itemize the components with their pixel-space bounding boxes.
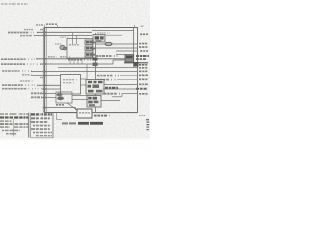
- long wire A label: [1, 58, 38, 60]
- header text top-left: [1, 3, 28, 5]
- wire F: [42, 88, 61, 90]
- vertical into block A: [86, 64, 88, 80]
- wire 2: [34, 34, 92, 36]
- video amp block: [61, 75, 81, 95]
- wire corner from table2: [56, 113, 58, 120]
- table 2 bottom-left: [31, 113, 62, 138]
- label row above mid wires: [96, 55, 118, 57]
- left connector bus (double line): [42, 28, 44, 113]
- paper grain: [0, 0, 150, 138]
- word gaps table 1: [4, 113, 26, 137]
- label wire row: [97, 75, 120, 77]
- mixer dark marks: [86, 41, 89, 43]
- wire: [72, 99, 88, 101]
- wire 1: antenna input label: [8, 32, 38, 34]
- wire top inner: [92, 30, 134, 32]
- wire D: [31, 75, 61, 77]
- wire into AFC: [46, 107, 75, 109]
- label row: [104, 93, 120, 95]
- connector pins on left bus: [43, 32, 47, 109]
- wire 2 label: [20, 35, 35, 37]
- chroma/video IC block A: [86, 80, 104, 95]
- wire F label: [2, 88, 44, 90]
- inner vertical divider: [95, 33, 97, 113]
- dark label: [105, 87, 118, 89]
- right dark block: [125, 55, 134, 62]
- right mid wires: [58, 67, 138, 69]
- wire through AFC: [60, 112, 77, 114]
- wire C label: [2, 70, 32, 72]
- label wire G left: [31, 92, 42, 94]
- corner scan marks: [139, 115, 145, 117]
- label wire H left: [31, 96, 42, 98]
- wire: [92, 47, 138, 49]
- small label left of tuner: [55, 43, 62, 45]
- transistor pair: [57, 93, 63, 97]
- IF amp box 2: [85, 46, 93, 51]
- faint label below wire2: [60, 36, 70, 38]
- wire: [105, 34, 122, 36]
- IF amp box 1: [85, 40, 93, 45]
- figure caption: [62, 122, 68, 124]
- top small label row: [24, 29, 34, 31]
- wire C: [31, 71, 96, 73]
- diagonal wire to AFC box: [67, 103, 77, 110]
- right margin labels: [136, 34, 149, 94]
- tick mid top border: [57, 25, 59, 28]
- tuner block box: [67, 39, 93, 59]
- label above top border: [36, 24, 44, 26]
- right dark box lower: [134, 62, 139, 67]
- label wire row: [97, 79, 117, 81]
- junction cluster on divider: [93, 58, 98, 61]
- ceramic filter oval: [105, 42, 112, 45]
- faint label above cluster: [97, 32, 110, 34]
- tick on bus top: [44, 25, 46, 28]
- AFC label right: [94, 115, 110, 117]
- paper background: [0, 0, 150, 150]
- wire 1: [37, 31, 92, 33]
- step wire: [122, 93, 138, 95]
- wire: [116, 54, 134, 56]
- wire E label: [2, 84, 38, 86]
- transistor cluster box: [56, 92, 72, 103]
- local oscillator symbol: [60, 45, 65, 49]
- tuner inner label: [69, 44, 80, 46]
- inner vertical right: [133, 28, 135, 68]
- word gaps table 2: [35, 113, 51, 137]
- top-right component cluster: [93, 35, 105, 43]
- drop leads below tuner: [69, 58, 71, 64]
- wire to filter: [96, 43, 138, 45]
- wire: [116, 50, 138, 52]
- wires to chroma: [81, 78, 87, 80]
- right edge scan dashes: [146, 119, 149, 130]
- sound IC block B: [87, 96, 101, 108]
- wire: [96, 71, 138, 73]
- outer frame: main schematic border: [45, 28, 138, 113]
- tick near top right corner: [134, 25, 136, 28]
- table 1 bottom-left: [0, 113, 30, 138]
- faint label above: [20, 80, 33, 82]
- label above AFC wire: [56, 104, 64, 106]
- wire E: [37, 84, 61, 86]
- long wire A: [36, 58, 134, 60]
- wire: [72, 95, 88, 97]
- wire D label: [22, 74, 32, 76]
- AFC box bottom: [77, 109, 92, 118]
- long wire B: [40, 63, 113, 65]
- long wire B label: [1, 63, 42, 65]
- IF amp box 3: [85, 52, 93, 57]
- strong output wire: [124, 62, 148, 64]
- text under tuner box: [68, 59, 92, 61]
- capacitor leads inside tuner: [72, 32, 74, 44]
- wire from block B: [101, 100, 120, 102]
- wire from block A: [104, 84, 138, 86]
